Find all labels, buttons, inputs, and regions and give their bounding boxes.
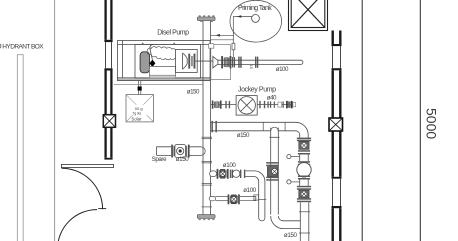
diesel pump frame top rail [118,43,211,45]
branch B flange tick [269,136,279,138]
svg-text:ø150: ø150 [284,232,298,239]
engine exhaust hook line [150,44,153,59]
upper branch gate valve (dark) [217,169,219,179]
spare line pipe [157,147,172,156]
svg-text:Jockey Pump: Jockey Pump [238,86,276,93]
branch B pipe down [270,128,272,215]
pump shaft line [196,60,217,62]
window right W2 [332,179,334,206]
diesel engine radiator (gray capsule) [140,52,149,73]
priming line horizontal with arrow [233,16,252,18]
upper branch flange pair [230,170,231,178]
jockey suction valve cluster [212,101,214,109]
engine body base (gray) [149,75,175,78]
riser joint ticks [202,136,212,138]
stack flange pair 4 [298,176,310,178]
gate valve S2 [299,190,309,198]
branch B gate valve [266,162,279,164]
column marker left (X-box) [103,115,115,128]
stack flange pair 5 [297,186,311,188]
grid line right (room face) [361,0,363,241]
svg-text:Ø HYDRANT BOX: Ø HYDRANT BOX [0,43,44,50]
door leaf arc top [62,168,103,209]
diesel pump base frame outer [118,41,211,81]
stack flange pair 6 [297,198,311,200]
stack pipe segment [299,155,301,162]
spare line stub dome into riser [201,147,205,155]
discharge flange pair B [238,57,240,68]
upper branch pipe + elbow down [245,171,265,218]
pump coupling flanges [188,54,190,69]
jockey pump impeller circle [238,97,255,114]
svg-text:ø150: ø150 [187,88,200,95]
lower branch pipe to end [240,195,256,197]
svg-text:ø100: ø100 [276,66,289,73]
lower branch gate valve (dark) [228,194,230,204]
svg-text:00 g: 00 g [135,106,143,111]
svg-text:ø100: ø100 [223,162,237,169]
wall left [104,0,112,160]
column marker right (X-box) [329,118,343,131]
discharge flange pair C [255,57,256,68]
svg-text:Tg lks: Tg lks [132,112,141,116]
dimension line [419,0,421,241]
discharge flange pair A [232,57,233,67]
svg-text:ø150: ø150 [176,156,189,163]
priming line drop [232,17,234,58]
riser line B [211,39,234,41]
jockey discharge flanges [259,101,260,108]
drop pipe bottom cap [259,218,265,221]
priming line valve box [232,43,235,50]
spare gate valve [171,145,173,158]
gauge stub 2 [291,181,300,183]
pump casing bell [183,53,188,69]
stack flange pair 2 [298,150,310,152]
jockey pump box [236,96,257,116]
gate valve S1 [299,141,309,149]
fuel shutoff valve (black) [138,87,142,91]
frame rail tick 1 [142,43,144,45]
svg-text:Priming Tank: Priming Tank [238,5,272,12]
header elbow to valve stack [296,122,309,137]
upper branch check valve circle [233,170,240,177]
svg-text:5000: 5000 [423,108,439,139]
grid line left [54,0,56,241]
discharge assembly boundary box [211,45,231,80]
discharge boundary stub box [209,44,214,49]
frame rail tick 2 [173,43,175,45]
priming arrow line to riser [211,34,234,36]
discharge pipe (capsule to right) [218,60,303,64]
jockey discharge line [257,104,291,106]
stack pipe to bottom [299,202,301,241]
lower branch pipe [215,195,227,197]
window right W1 [332,46,334,68]
drop pipe side stub box [254,195,259,200]
diesel pump frame left column [122,41,124,81]
engine body box [149,66,175,75]
upper branch flange pair 2 [240,170,241,178]
svg-text:Spare: Spare [152,156,167,163]
svg-text:15: 15 [249,65,253,69]
upper branch bell [210,171,217,177]
lower branch end cap [255,196,257,200]
stack pipe ticks [299,211,310,213]
wall right [332,31,342,241]
fuel line to day tank [138,81,140,95]
diesel discharge suction bell [213,56,218,68]
svg-text:Solar: Solar [131,116,142,121]
door leaf arc bottom [58,210,98,241]
jockey check valve (dark cluster) [286,101,288,108]
discharge butterfly valve [221,56,223,68]
svg-text:ø100: ø100 [243,187,257,194]
diesel pump inner frame [135,44,201,78]
jockey line end cap [293,102,296,106]
door leaf tick [98,208,106,210]
flow arrow (black diamond) [149,60,155,67]
gauge stub 1 [291,156,300,158]
engine outline squiggle [147,47,178,60]
svg-text:ø40: ø40 [267,94,277,101]
header joint ticks [262,122,264,131]
stack flange pair 3 [298,161,310,163]
main header pipe [211,121,296,123]
pump motor housing [176,49,198,72]
header flange pair at riser [211,121,213,132]
window left W1 [104,42,106,68]
diesel pump base bottom bar [118,78,211,81]
drop pipe tick [257,199,266,201]
priming tank [230,0,282,42]
jockey suction line [211,104,237,106]
hydrant box riser [17,55,23,241]
bottom elbow from branch B [271,216,301,229]
building column (large X-box) [289,0,328,31]
door header [61,164,113,167]
main suction riser pipe [202,21,204,215]
svg-text:Disel Pump: Disel Pump [157,29,189,36]
check valve stack (circle) [297,163,311,177]
branch B stub dome [271,127,279,131]
priming tank nozzle circle [252,15,260,23]
suction riser bottom flange [197,215,215,221]
stack pipe segment 2 [299,180,301,186]
foundation pad line [114,83,203,85]
svg-text:ø150: ø150 [237,132,250,139]
fuel day tank box [126,95,154,122]
lower branch bell [209,196,215,200]
suction riser top flange [197,15,215,22]
valve stack flange 1 [297,138,311,140]
jockey sight glass [278,102,282,107]
